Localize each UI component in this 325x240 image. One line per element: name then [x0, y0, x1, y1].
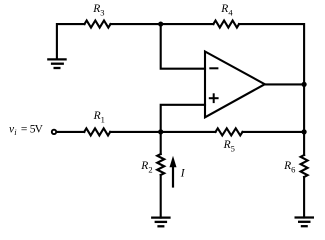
wire op-amp output: [265, 83, 304, 85]
wire R6 to ground: [303, 177, 305, 218]
resistor R2: [157, 154, 164, 175]
wire input terminal to R1: [57, 131, 84, 133]
source label vi = 5V: [9, 123, 44, 137]
svg-text:R1: R1: [93, 110, 105, 125]
current arrow I: [170, 156, 177, 188]
wire R4 to top-right corner down to output node: [239, 24, 304, 84]
node B junction dot: [158, 129, 163, 134]
wire node A down to inverting input: [161, 24, 205, 69]
wire node B to R5: [161, 131, 216, 133]
wire node B down to R2: [160, 132, 162, 154]
resistor R6: [301, 155, 308, 177]
svg-text:I: I: [180, 167, 186, 179]
wire node C down to R6: [303, 132, 305, 155]
wire R1 to node B: [110, 131, 161, 133]
label R1: [93, 110, 105, 125]
resistor R5: [216, 128, 243, 135]
wire node A to R4: [161, 23, 214, 25]
svg-text:R3: R3: [92, 3, 104, 18]
label R2: [140, 160, 152, 175]
resistor R1: [84, 128, 110, 135]
node A junction dot: [158, 21, 163, 26]
resistor R3: [85, 21, 111, 28]
svg-text:R6: R6: [283, 160, 295, 175]
node C junction dot: [302, 129, 307, 134]
op-amp plus pin label: [209, 93, 219, 103]
ground (below R6): [295, 218, 315, 227]
resistor R4: [213, 21, 239, 28]
op-amp U1: [205, 52, 265, 118]
svg-text:R2: R2: [140, 160, 152, 175]
wire R2 to ground: [160, 175, 162, 218]
label R3: [92, 3, 104, 18]
ground (below R2): [151, 218, 171, 227]
svg-text:R4: R4: [220, 3, 233, 18]
output node junction dot: [302, 82, 307, 87]
wire ground riser to R3: [57, 24, 85, 59]
svg-text:vi=5V: vi=5V: [9, 123, 44, 137]
svg-text:R5: R5: [223, 139, 235, 154]
label R6: [283, 160, 295, 175]
wire non-inverting input riser: [161, 105, 205, 132]
ground (top-left): [47, 59, 66, 68]
wire R3 to node A: [111, 23, 161, 25]
label I: [180, 167, 186, 179]
label R4: [220, 3, 233, 18]
wire output node down to node C: [303, 84, 305, 131]
label R5: [223, 139, 235, 154]
op-amp minus pin label: [209, 67, 218, 69]
wire R5 to node C: [243, 131, 305, 133]
input terminal circle: [52, 130, 56, 134]
